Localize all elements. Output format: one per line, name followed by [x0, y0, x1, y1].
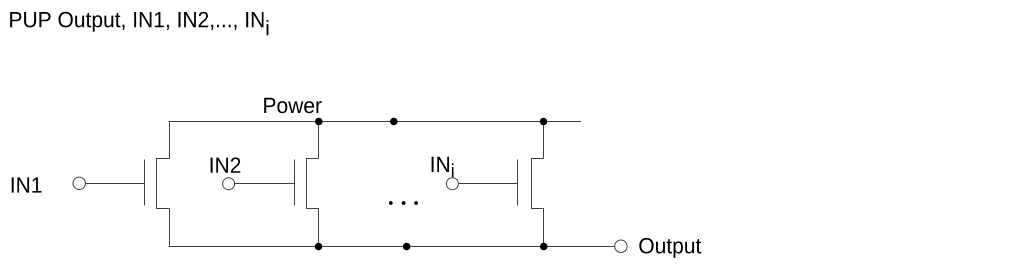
wire: IN2 gate lead [235, 183, 295, 185]
title subscript i [267, 20, 269, 35]
wire: Output rail (bottom) [169, 246, 615, 248]
node INi terminal [446, 178, 458, 190]
junction dot: output rail middle tap [403, 243, 411, 251]
junction dot: output rail / Q3 source [540, 243, 548, 251]
node IN2 terminal [223, 178, 235, 190]
INi label subscript i [452, 163, 454, 177]
title text: PUP Output, IN1, IN2,..., INi [10, 12, 263, 32]
IN2 label [211, 157, 241, 172]
wire: Power rail (top) [169, 121, 581, 123]
IN1 label [12, 177, 42, 192]
INi label (IN) [432, 157, 449, 172]
junction dot: output rail / Q2 source [315, 243, 323, 251]
transistor Q2 (IN2 pull-up) [295, 122, 319, 247]
wire: IN1 gate lead [85, 183, 144, 185]
wire: INi gate lead [459, 183, 518, 185]
junction dot: power rail / Q3 drain [540, 118, 548, 126]
Power label [264, 98, 322, 113]
junction dot: power rail middle tap [390, 118, 398, 126]
node IN1 terminal [73, 177, 85, 189]
transistor Q1 (IN1 pull-up) [145, 122, 170, 247]
Output label [639, 238, 701, 258]
transistor Q3 (INi pull-up) [518, 122, 544, 247]
ellipsis dots (further inputs) [389, 201, 418, 205]
node Output terminal [615, 240, 627, 252]
junction dot: power rail / Q2 drain [315, 118, 323, 126]
